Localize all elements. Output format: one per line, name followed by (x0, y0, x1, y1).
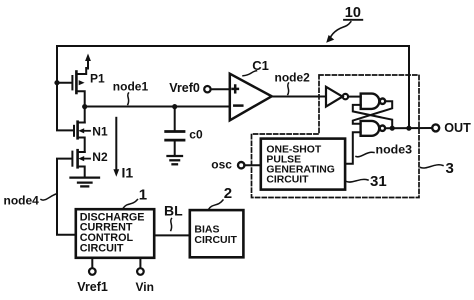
svg-text:I1: I1 (122, 165, 134, 181)
squiggle node2 (287, 83, 290, 95)
squiggle 31 (347, 179, 369, 182)
node node1: junction of P1/N1 drains (82, 104, 87, 109)
svg-text:1: 1 (139, 187, 147, 204)
svg-text:OUT: OUT (444, 121, 471, 135)
squiggle 2 (208, 200, 223, 210)
terminal osc (238, 162, 244, 168)
svg-text:CIRCUIT: CIRCUIT (194, 234, 237, 246)
capacitor c0 (166, 107, 184, 155)
node: feedback junction on OUT wire (406, 126, 411, 131)
svg-text:node2: node2 (275, 71, 311, 85)
svg-text:BL: BL (164, 203, 183, 219)
ground under c0 (168, 156, 183, 164)
svg-text:Vin: Vin (136, 280, 154, 294)
node A: junction P1 gate on left rail (54, 80, 59, 85)
transistor N2 (72, 150, 90, 176)
squiggle 1 (123, 200, 138, 209)
terminal Vref1 (91, 258, 93, 268)
svg-text:3: 3 (446, 160, 454, 177)
wire: inverter to NAND1 input (348, 96, 361, 98)
svg-text:2: 2 (224, 185, 232, 202)
wire: NAND2 output to OUT (385, 127, 432, 129)
wire: osc to one-shot box (244, 164, 260, 166)
squiggle 3 (421, 165, 444, 168)
squiggle node1 (127, 93, 130, 105)
inverter (326, 87, 348, 107)
terminal Vin (139, 258, 141, 268)
squiggle node3 (356, 152, 374, 157)
squiggle C1 (243, 71, 257, 76)
svg-text:CIRCUIT: CIRCUIT (266, 174, 309, 185)
transistor N1 (74, 107, 90, 152)
svg-text:10: 10 (345, 5, 361, 21)
discharge current control circuit box 1 (76, 209, 154, 258)
squiggle node4 (41, 194, 56, 200)
NAND gate bottom (361, 121, 385, 136)
terminal Vref0 (204, 86, 210, 92)
wire BL: discharge box to bias box (154, 234, 190, 236)
dashed box 3 (252, 75, 420, 198)
svg-text:N1: N1 (92, 125, 108, 139)
node: latch output junction (390, 126, 395, 131)
svg-text:Vref1: Vref1 (77, 280, 108, 294)
wire: Vref0 to comparator plus input (211, 88, 230, 90)
svg-text:node1: node1 (113, 80, 149, 94)
terminal OUT (432, 124, 439, 131)
svg-text:c0: c0 (189, 128, 203, 142)
svg-text:osc: osc (211, 158, 232, 172)
wire: one-shot output to NAND2 lower input (345, 132, 360, 164)
svg-text:CIRCUIT: CIRCUIT (80, 242, 124, 254)
wire: left rail to P1/N1 gates (57, 46, 74, 130)
wire: P1 gate wire (57, 82, 72, 84)
op-amp C1 comparator (230, 74, 272, 121)
wire: NAND2 output cross-couple to NAND1 lower input (353, 105, 392, 128)
one-shot pulse generating circuit box 31 (261, 139, 345, 190)
wire: top feedback rail of circuit 10 (57, 46, 409, 128)
node: c0 junction on node1 (172, 104, 177, 109)
NAND gate top (361, 94, 385, 109)
current arrow I1 (113, 118, 119, 177)
wire node2: comparator output to inverter (272, 96, 326, 98)
bias circuit box 2 (190, 210, 244, 257)
arrow from 10 to circuit boundary (330, 22, 351, 39)
svg-text:P1: P1 (90, 72, 105, 86)
svg-text:31: 31 (370, 173, 387, 190)
transistor P1 (72, 54, 91, 107)
svg-text:N2: N2 (92, 150, 108, 164)
svg-text:Vref0: Vref0 (169, 81, 200, 95)
svg-text:node4: node4 (4, 193, 40, 207)
svg-text:node3: node3 (376, 142, 413, 156)
wire: node1 rail to comparator minus input (85, 106, 230, 108)
squiggle BL (170, 219, 173, 231)
wire: N2 gate from node4 rail (57, 159, 76, 235)
wire: NAND1 output + cross-couple to NAND2 upper input (353, 101, 392, 124)
ground under N2 (71, 178, 100, 187)
